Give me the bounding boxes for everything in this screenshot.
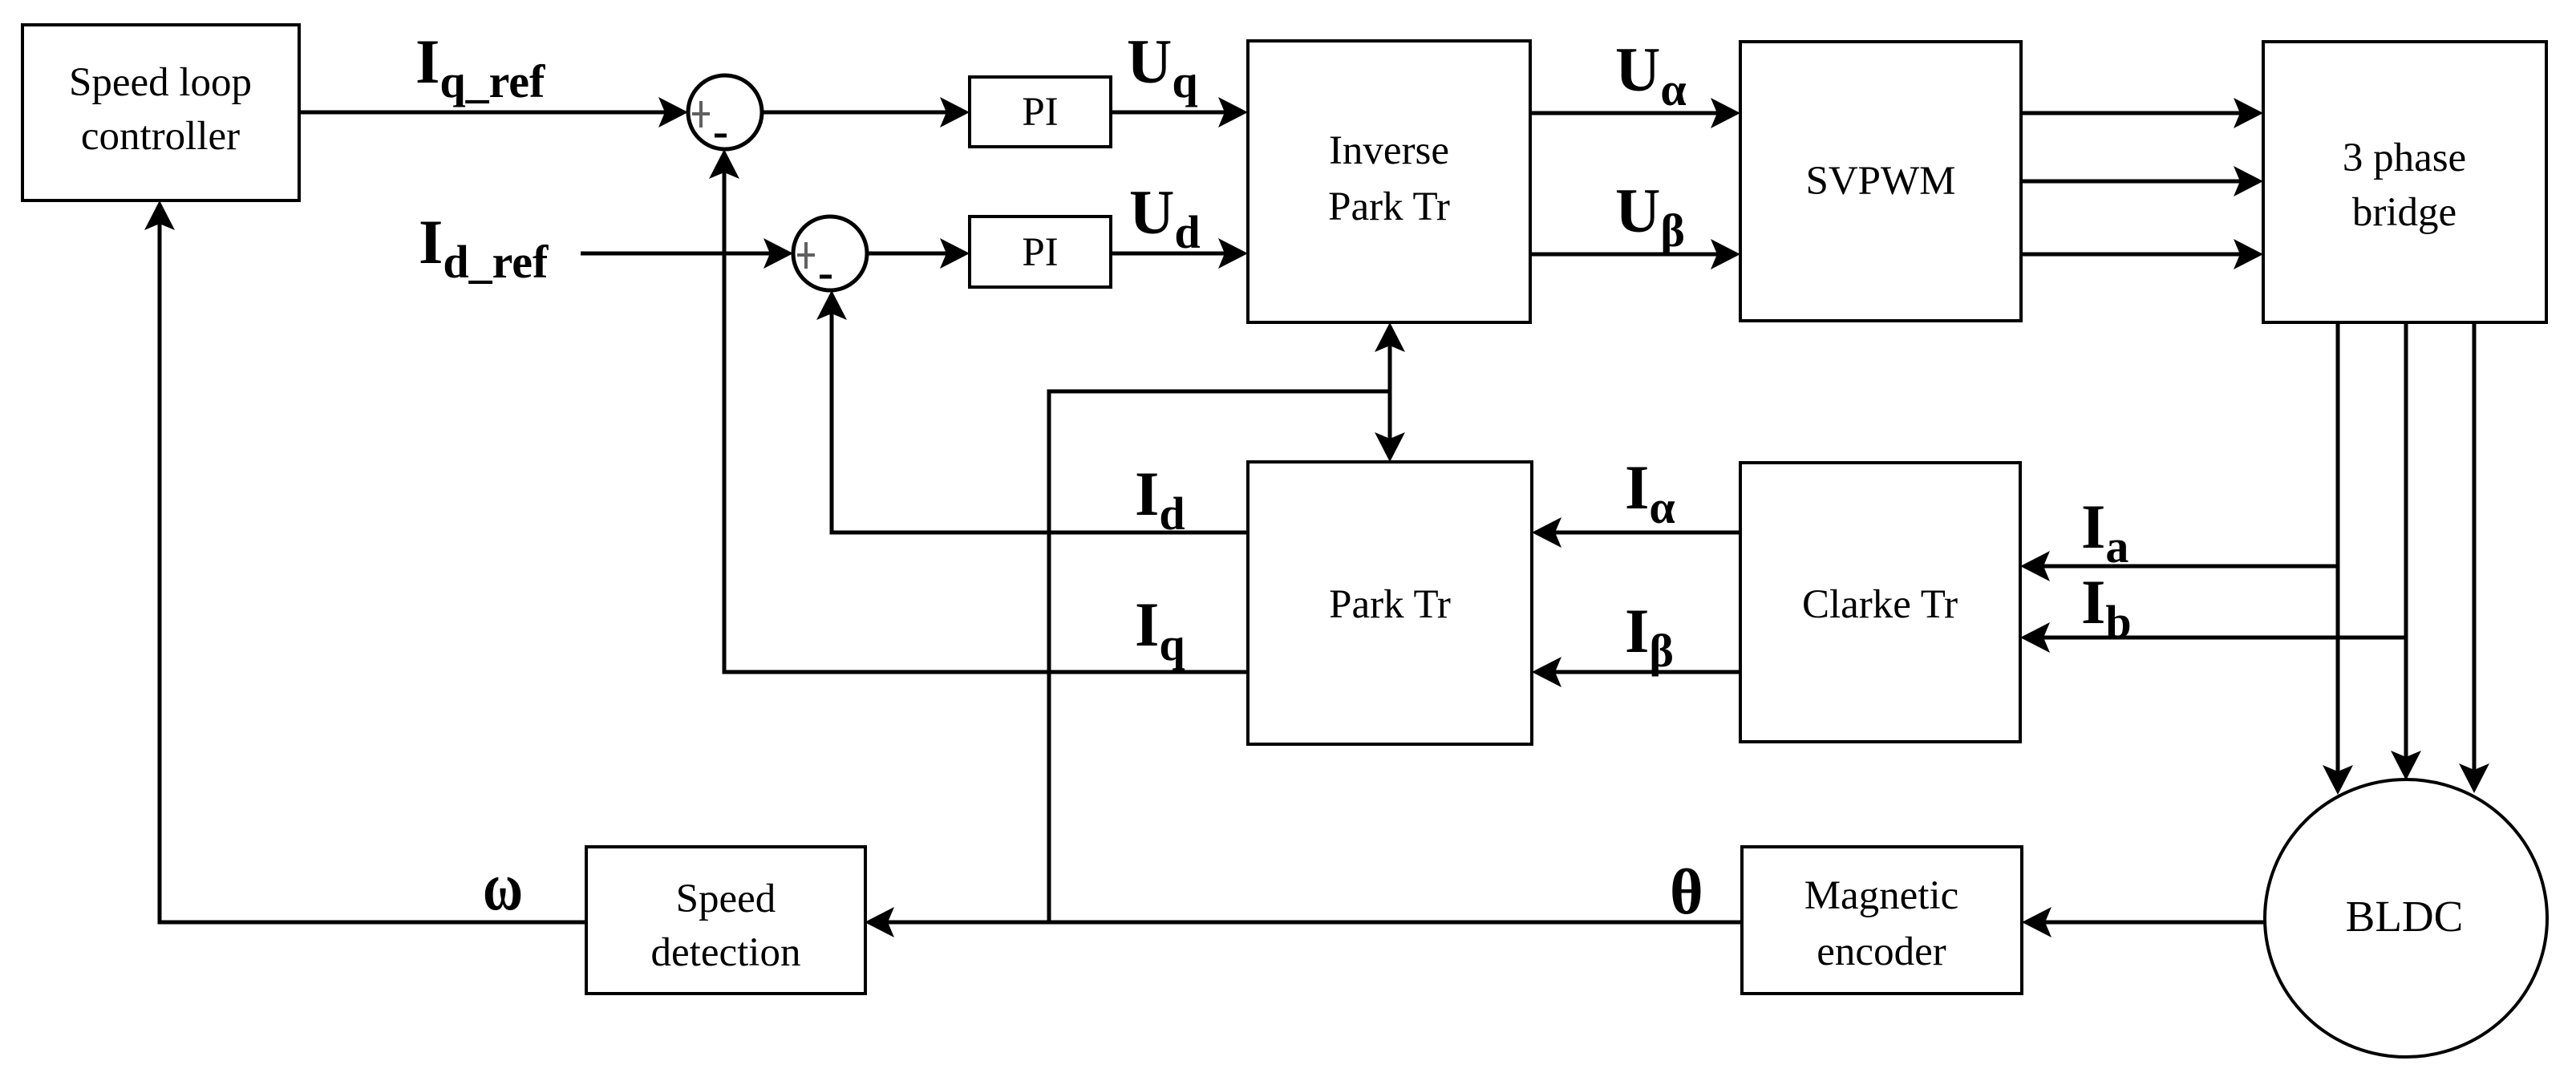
svg-text:Magnetic: Magnetic bbox=[1804, 873, 1959, 918]
summing junction S2 bbox=[793, 217, 867, 290]
svg-text:SVPWM: SVPWM bbox=[1805, 159, 1955, 204]
wire Ib from bridge phase B to Clarke bbox=[2020, 622, 2406, 653]
block 3 phase bridge bbox=[2263, 42, 2546, 322]
wire BLDC to Magnetic encoder bbox=[2022, 907, 2265, 937]
svg-text:encoder: encoder bbox=[1817, 929, 1946, 974]
wire Ialpha from Clarke to Park bbox=[1532, 517, 1740, 548]
wire S2 to PI2 bbox=[867, 238, 970, 269]
svg-text:Park Tr: Park Tr bbox=[1328, 184, 1450, 229]
svg-text:ω: ω bbox=[483, 848, 523, 925]
block Speed detection bbox=[586, 847, 865, 994]
svg-text:Speed loop: Speed loop bbox=[69, 60, 252, 105]
wire theta from Magnetic encoder to Speed detection bbox=[865, 907, 1742, 937]
wire Iq feedback from Park to S1 bbox=[709, 149, 1248, 672]
summing junction S1 bbox=[688, 75, 762, 149]
wire Uq from PI1 to Inverse Park bbox=[1111, 97, 1248, 128]
wire Ibeta from Clarke to Park bbox=[1532, 657, 1740, 687]
svg-text:Speed: Speed bbox=[676, 877, 776, 921]
wire SVPWM to bridge line 2 bbox=[2021, 166, 2263, 196]
svg-text:BLDC: BLDC bbox=[2346, 892, 2464, 941]
svg-text:θ: θ bbox=[1670, 857, 1703, 928]
svg-text:bridge: bridge bbox=[2352, 190, 2457, 235]
block Park Tr bbox=[1248, 462, 1532, 744]
svg-text:PI: PI bbox=[1022, 90, 1058, 135]
wire bridge phase C down to BLDC bbox=[2459, 322, 2489, 793]
wire bridge phase A down to BLDC bbox=[2323, 322, 2353, 795]
block Speed loop controller bbox=[22, 25, 299, 200]
wire Ualpha from Inverse Park to SVPWM bbox=[1530, 98, 1740, 128]
svg-text:3 phase: 3 phase bbox=[2343, 136, 2466, 180]
svg-text:detection: detection bbox=[651, 930, 801, 975]
svg-text:PI: PI bbox=[1022, 230, 1058, 275]
wire bridge phase B down to BLDC bbox=[2391, 322, 2421, 780]
wire Id feedback from Park to S2 bbox=[816, 290, 1248, 532]
block SVPWM bbox=[1740, 42, 2021, 321]
block Magnetic encoder bbox=[1742, 847, 2022, 994]
bidirectional theta wire between Inverse Park and Park bbox=[1375, 322, 1405, 462]
wire S1 to PI1 bbox=[762, 97, 970, 128]
svg-text:controller: controller bbox=[81, 114, 240, 159]
wire SVPWM to bridge line 1 bbox=[2021, 98, 2263, 128]
svg-text:Inverse: Inverse bbox=[1329, 128, 1449, 173]
wire Iq_ref from controller to summing junction S1 bbox=[299, 97, 688, 128]
block PI2 bbox=[970, 217, 1111, 287]
wire omega from Speed detection to Speed loop controller bbox=[144, 200, 586, 922]
svg-text:Clarke Tr: Clarke Tr bbox=[1802, 582, 1958, 627]
BLDC motor circle bbox=[2265, 779, 2547, 1057]
wire SVPWM to bridge line 3 bbox=[2021, 239, 2263, 269]
wire Id_ref to summing junction S2 bbox=[581, 238, 793, 269]
block Clarke Tr bbox=[1740, 463, 2020, 742]
block Inverse Park Tr bbox=[1248, 41, 1530, 322]
theta distribution vertical and horizontal wire to Park transforms bbox=[1049, 391, 1390, 922]
wire Ud from PI2 to Inverse Park bbox=[1111, 238, 1248, 269]
wire Ubeta from Inverse Park to SVPWM bbox=[1530, 239, 1740, 269]
block PI1 bbox=[970, 77, 1111, 147]
svg-text:Park Tr: Park Tr bbox=[1329, 582, 1451, 627]
wire Ia from bridge phase A to Clarke bbox=[2020, 551, 2338, 581]
